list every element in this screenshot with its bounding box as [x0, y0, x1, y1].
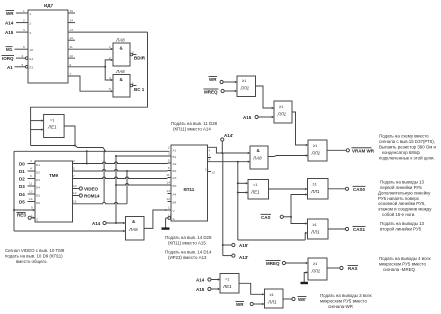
wire ground to ЛЛ1 RAS input2	[304, 273, 306, 283]
svg-text:9: 9	[70, 63, 72, 67]
ТМ9 input D0	[28, 163, 36, 165]
svg-text:подать на выв. 10 D9 (КП11): подать на выв. 10 D9 (КП11)	[5, 254, 63, 259]
wire ЛЛ1 RAS output to connector	[327, 267, 340, 269]
svg-text:Подать на выводы 13: Подать на выводы 13	[380, 180, 425, 185]
svg-text:Подать на выв. 11 D28: Подать на выв. 11 D28	[171, 121, 218, 126]
rail A15new x=237.8 down to U loop	[238, 162, 307, 240]
svg-text:сигнала -MREQ: сигнала -MREQ	[383, 267, 416, 272]
svg-text:CAS1: CAS1	[353, 227, 366, 232]
ЛА8 BDIR output bubble and stub	[130, 53, 133, 56]
svg-text:A14': A14'	[224, 133, 233, 138]
wire ЛЕ1 output to ЛЛ1 WE input1	[239, 283, 263, 294]
svg-text:10: 10	[168, 214, 172, 218]
svg-text:ЛЛ1: ЛЛ1	[311, 269, 321, 274]
svg-text:Подать на выводы 3 всех: Подать на выводы 3 всех	[320, 293, 373, 298]
wire ЛЛ1 WE output to connector	[283, 298, 292, 300]
svg-text:A14: A14	[92, 221, 101, 226]
svg-text:BDIR: BDIR	[134, 56, 146, 61]
svg-text:C: C	[36, 217, 39, 221]
svg-text:D5: D5	[19, 200, 25, 205]
КП11 multiplexer D28	[171, 145, 208, 221]
svg-text:3: 3	[30, 159, 32, 163]
gate ЛА8 D37 zone	[250, 146, 268, 169]
svg-text:ЛЛ1: ЛЛ1	[311, 151, 321, 156]
wire V4 branch to ЛА8 A14-gate input 2	[14, 230, 124, 232]
svg-text:5: 5	[168, 159, 170, 163]
svg-text:14: 14	[205, 168, 209, 172]
ИД7 right output pin 13 wire to loop	[68, 31, 148, 33]
svg-text:BC 1: BC 1	[134, 87, 145, 92]
svg-text:&: &	[132, 219, 136, 224]
КП11 right pin stub 2	[208, 157, 212, 159]
svg-text:подключенные к этой цепи.: подключенные к этой цепи.	[379, 156, 435, 161]
svg-text:6: 6	[23, 45, 25, 49]
wire A14 vertical rail x=116 from КП11 pin2 down to ЛА8 A14 gate	[116, 155, 168, 157]
svg-text:Подать на выводы 13: Подать на выводы 13	[380, 221, 425, 226]
svg-text:11: 11	[70, 45, 73, 49]
svg-text:&: &	[120, 46, 124, 51]
svg-text:B1: B1	[173, 155, 177, 159]
svg-text:≥1: ≥1	[313, 261, 317, 266]
svg-text:(КП11) вместо A15: (КП11) вместо A15	[168, 241, 206, 246]
svg-text:VRAM WR: VRAM WR	[352, 148, 375, 153]
svg-text:ТМ9: ТМ9	[49, 173, 58, 178]
svg-text:4: 4	[22, 54, 24, 58]
КП11 right pin wire to ЛА8 D37 input1	[208, 147, 249, 153]
wire ЛЛ1 WR/MREQ output to ЛЛ1 A15 gate	[256, 86, 273, 108]
wire КП11 pin6 branch from rail	[116, 184, 168, 186]
svg-text:5: 5	[73, 167, 75, 171]
svg-text:≥1: ≥1	[313, 222, 317, 227]
svg-text:D4: D4	[36, 186, 40, 190]
ЛА8 BC1 output bubble and stub	[130, 84, 133, 87]
svg-text:2: 2	[23, 19, 25, 23]
svg-text:≥1: ≥1	[279, 104, 283, 109]
svg-text:Подать на выводы 4 всех: Подать на выводы 4 всех	[379, 256, 432, 261]
svg-text:≥1: ≥1	[313, 143, 317, 148]
svg-text:2: 2	[168, 146, 170, 150]
connector CAS1 output	[345, 227, 348, 230]
svg-text:сигнала с выв.15 D37(РТ5),: сигнала с выв.15 D37(РТ5),	[379, 139, 435, 144]
connector WE output	[292, 297, 295, 300]
wire ЛЛ1 A15 output to ЛЛ1 VRAM gate	[292, 112, 307, 145]
wire ЛЕ1 inverter output to ЛЛ1 CAS0 input1	[269, 188, 307, 190]
svg-text:11: 11	[29, 182, 32, 186]
svg-text:12: 12	[212, 171, 216, 175]
svg-text:B2: B2	[173, 169, 177, 173]
svg-text:IORQ: IORQ	[2, 56, 14, 61]
svg-text:1: 1	[31, 214, 33, 218]
svg-text:A15': A15'	[239, 243, 248, 248]
gate ЛЛ1 CAS1	[308, 219, 329, 239]
svg-text:RAS: RAS	[348, 266, 358, 271]
svg-text:13: 13	[29, 190, 33, 194]
svg-text:ЛЛ1: ЛЛ1	[277, 112, 287, 117]
gate ЛЛ1 CAS0	[308, 179, 329, 200]
svg-text:ЛЕ1: ЛЕ1	[47, 125, 57, 130]
svg-text:1: 1	[109, 45, 111, 49]
svg-text:14: 14	[29, 197, 33, 201]
ИД7 left pin WR input	[16, 12, 28, 14]
ТМ9 input D1	[28, 170, 36, 172]
wire ЛА8 D37 output to ЛЛ1 VRAM input2	[268, 156, 307, 157]
ТМ9 input D5	[28, 201, 36, 203]
wire latch rail x=104 down	[103, 151, 105, 202]
svg-text:D5: D5	[36, 194, 40, 198]
svg-text:&: &	[257, 148, 261, 153]
svg-text:=1: =1	[253, 182, 257, 187]
svg-text:ROM14: ROM14	[84, 194, 100, 199]
svg-text:D3: D3	[36, 178, 40, 182]
svg-text:&: &	[120, 77, 124, 82]
svg-text:ЛА8: ЛА8	[115, 38, 125, 43]
svg-text:WR: WR	[6, 11, 14, 16]
ИД7 right output pin 9 wire split to both ЛА8 gates	[68, 60, 112, 80]
svg-text:VIDEO: VIDEO	[84, 187, 99, 192]
svg-text:7: 7	[70, 72, 72, 76]
svg-text:РУ5 напаять поверх: РУ5 напаять поверх	[378, 196, 420, 201]
gate ЛЛ1 RAS	[308, 258, 327, 280]
connector A15' bottom	[223, 244, 232, 246]
svg-text:A1: A1	[7, 65, 13, 70]
svg-text:Подать на схему вместо: Подать на схему вместо	[379, 134, 429, 139]
ТМ9 latch D9	[35, 161, 73, 222]
ground at RAS gate	[301, 282, 309, 284]
svg-text:12: 12	[73, 191, 77, 195]
wire ЛЛ1 CAS1 output to connector	[328, 228, 345, 230]
svg-text:Подать на выв. 14 D14: Подать на выв. 14 D14	[165, 250, 212, 255]
ТМ9 input D2	[28, 178, 36, 180]
connector A14 input WE zone	[208, 278, 211, 281]
wire rail to ЛЕ1 inverter input1	[238, 182, 247, 184]
wire CAS rail split to both CAS gates	[291, 195, 306, 224]
svg-text:ЛЛ1: ЛЛ1	[267, 300, 277, 305]
svg-text:ЛЕ1: ЛЕ1	[250, 190, 260, 195]
ИД7 right output pin 7 wire to ЛА8 BC1 input 2	[68, 76, 112, 91]
ТМ9 input D3	[28, 185, 36, 187]
connector WR input WE zone	[250, 302, 253, 305]
svg-text:A15: A15	[196, 287, 205, 292]
gate ЛА8 BDIR	[113, 43, 130, 66]
svg-text:(ИР23) вместо A13: (ИР23) вместо A13	[168, 255, 207, 260]
svg-text:этажом и соединив между: этажом и соединив между	[378, 207, 432, 212]
svg-text:второй линейки РУ5: второй линейки РУ5	[380, 227, 422, 232]
gate ЛЛ1 A15	[274, 101, 292, 123]
svg-text:Выпаять резистор 390 Ом и: Выпаять резистор 390 Ом и	[379, 145, 437, 150]
svg-text:3: 3	[30, 31, 32, 35]
svg-text:Сигнал VIDEO с выв. 10 ТМ9: Сигнал VIDEO с выв. 10 ТМ9	[5, 248, 65, 253]
gate ЛА8 A14 zone	[126, 217, 145, 241]
wire big loop: pin13 right edge down and back left	[31, 32, 148, 145]
wire ТМ9 out3 to КП11 pin5 with hops	[77, 177, 168, 179]
svg-text:10: 10	[73, 184, 77, 188]
svg-text:основной линейки РУ5,: основной линейки РУ5,	[378, 201, 426, 206]
svg-text:11: 11	[167, 173, 170, 177]
wire ЛЕ1 latch input 2	[31, 129, 43, 131]
svg-text:MREQ: MREQ	[204, 90, 218, 95]
svg-text:RES: RES	[17, 213, 26, 218]
connector A15 input WE zone	[208, 287, 211, 290]
svg-text:собой 15-е ноги.: собой 15-е ноги.	[382, 212, 415, 217]
svg-text:B4: B4	[173, 201, 177, 205]
svg-text:1: 1	[168, 206, 170, 210]
svg-text:B3: B3	[173, 184, 177, 188]
svg-text:2: 2	[30, 22, 32, 26]
svg-text:A15: A15	[5, 30, 14, 35]
connector A13' bottom	[223, 255, 232, 257]
svg-text:3: 3	[23, 28, 25, 32]
connector WR input	[220, 80, 223, 83]
wire ЛА8 A14-gate output to КП11 pin	[144, 210, 168, 228]
svg-text:7: 7	[73, 174, 75, 178]
svg-text:1: 1	[23, 9, 25, 13]
svg-text:13: 13	[167, 189, 171, 193]
svg-text:=1: =1	[50, 118, 54, 123]
svg-text:ИД7: ИД7	[44, 3, 53, 8]
ИД7 right output stub pin 12	[68, 39, 75, 41]
svg-text:4: 4	[30, 167, 32, 171]
svg-text:CAS0: CAS0	[353, 187, 366, 192]
ИД7 left pin IORQ input with bubble	[16, 57, 25, 59]
svg-text:14: 14	[167, 181, 171, 185]
svg-text:=1: =1	[225, 277, 229, 282]
svg-text:V: V	[173, 209, 176, 213]
gate ЛЕ1 latch	[44, 115, 65, 138]
svg-text:микросхем РУ5 вместо: микросхем РУ5 вместо	[320, 299, 367, 304]
svg-text:6: 6	[30, 174, 32, 178]
svg-text:ЛЛ1: ЛЛ1	[310, 230, 320, 235]
connector A15 input	[255, 115, 258, 118]
connector CAS0 output	[345, 187, 348, 190]
svg-text:A2: A2	[173, 162, 177, 166]
connector ROM14	[77, 195, 80, 197]
ИД7 left pin A14 input	[16, 22, 28, 24]
svg-text:12: 12	[167, 197, 171, 201]
ИД7 right output stub pin 10	[68, 57, 75, 59]
wire latch node H to КП11	[14, 146, 170, 152]
wire ЛЕ1 latch output feedback loop	[64, 126, 75, 146]
wire rail to ЛЕ1 inverter input2	[238, 192, 247, 194]
svg-text:D3: D3	[19, 184, 25, 189]
svg-text:Подать на выв. 14 D28: Подать на выв. 14 D28	[165, 235, 212, 240]
svg-text:S: S	[173, 217, 175, 221]
svg-text:ЛЛ1: ЛЛ1	[240, 86, 250, 91]
svg-text:2: 2	[73, 159, 75, 163]
КП11 right pin wire to ЛА8 D37 input2	[208, 161, 249, 163]
svg-text:10: 10	[30, 48, 34, 52]
ИД7 left pin M1 input	[15, 48, 29, 50]
svg-text:13: 13	[70, 28, 74, 32]
КП11 right short stub pin14	[208, 171, 212, 173]
svg-text:WE': WE'	[298, 297, 306, 302]
ТМ9 right output stubs	[73, 164, 77, 204]
svg-text:первой линейки РУ5: первой линейки РУ5	[380, 185, 422, 190]
svg-text:WR: WR	[236, 302, 244, 307]
svg-text:9: 9	[209, 158, 211, 162]
wire ЛЛ1 CAS0 output to connector	[328, 188, 345, 190]
svg-text:Ε1: Ε1	[30, 57, 34, 61]
svg-text:4: 4	[109, 76, 111, 80]
svg-text:A13': A13'	[239, 255, 248, 260]
svg-text:10: 10	[70, 54, 74, 58]
connector VRAM WR output	[346, 149, 349, 152]
svg-text:КП11: КП11	[184, 187, 195, 192]
gate ЛЛ1 VRAM WR	[308, 140, 327, 161]
ИД7 right output pin 11 wire to ЛА8 BDIR input 1	[68, 48, 112, 50]
svg-text:6: 6	[168, 166, 170, 170]
svg-text:Дополнительную линейку: Дополнительную линейку	[378, 190, 431, 195]
connector CAS input	[280, 215, 283, 218]
gate ЛЛ1 WE	[265, 289, 284, 308]
КП11 bottom-left pin with bubble to ground	[166, 217, 168, 219]
ТМ9 connector RES with bubble pin	[28, 216, 31, 219]
svg-text:Ε2: Ε2	[30, 66, 34, 70]
svg-text:D1: D1	[19, 169, 25, 174]
svg-text:3: 3	[168, 152, 170, 156]
svg-text:D0: D0	[19, 162, 25, 167]
svg-text:ЛА8: ЛА8	[128, 227, 138, 232]
connector VIDEO	[77, 188, 80, 190]
svg-text:5: 5	[109, 87, 111, 91]
connector RAS output	[340, 266, 343, 269]
svg-text:4: 4	[209, 149, 211, 153]
svg-text:6: 6	[132, 82, 134, 86]
ground at КП11	[165, 218, 167, 228]
svg-text:≥1: ≥1	[313, 182, 317, 187]
svg-text:≥1: ≥1	[242, 78, 246, 83]
ИД7 right output stub pin 14	[68, 22, 75, 24]
svg-text:CAS: CAS	[261, 215, 271, 220]
svg-text:A1: A1	[173, 149, 177, 153]
svg-text:конденсатор 68пф: конденсатор 68пф	[382, 150, 420, 155]
wire ЛЛ1 VRAM output to connector	[327, 149, 346, 151]
connector A14' above КП11	[221, 138, 224, 141]
input arrowheads	[33, 48, 308, 305]
svg-text:3: 3	[132, 51, 134, 55]
svg-text:микросхем РУ5 вместо: микросхем РУ5 вместо	[379, 262, 426, 267]
svg-text:9: 9	[31, 206, 33, 210]
svg-text:вместо общего.: вместо общего.	[16, 259, 48, 264]
gate ЛЛ1 WR/MREQ	[237, 76, 256, 97]
ТМ9 input D4	[28, 193, 36, 195]
svg-text:ЛЛ1: ЛЛ1	[310, 189, 320, 194]
gate ЛЕ1 inverter CAS zone	[248, 180, 269, 200]
svg-text:14: 14	[70, 19, 74, 23]
svg-text:A4: A4	[173, 193, 177, 197]
wire ТМ9 out6 up to КП11 pin4 rail x=127	[77, 171, 128, 204]
wire ЛЕ1 latch input 1	[31, 120, 43, 122]
svg-text:D6: D6	[36, 201, 40, 205]
svg-text:ЛА8: ЛА8	[115, 69, 125, 74]
svg-text:WR: WR	[209, 77, 217, 82]
ИД7 left pin A1 input with bubble	[15, 66, 26, 68]
svg-text:D2: D2	[19, 177, 25, 182]
svg-text:ЛЕ1: ЛЕ1	[222, 284, 232, 289]
svg-text:D1: D1	[36, 163, 40, 167]
ИД7 right output stub pin 15	[68, 12, 75, 14]
gate ЛЕ1 A14/A15	[220, 274, 239, 294]
svg-text:A14: A14	[5, 21, 14, 26]
svg-text:A14: A14	[196, 278, 205, 283]
ИД7 left pin A15 input	[16, 31, 28, 33]
wire latch vertical V4 down left side	[13, 151, 15, 231]
svg-text:сигнала-WR: сигнала-WR	[328, 304, 353, 309]
svg-text:A3: A3	[173, 176, 177, 180]
svg-text:D4: D4	[19, 192, 25, 197]
wire V4 branch to ТМ9 pin	[14, 209, 34, 211]
svg-text:ЛА8: ЛА8	[252, 156, 262, 161]
svg-text:1: 1	[30, 12, 32, 16]
svg-text:A15: A15	[243, 115, 252, 120]
svg-text:12: 12	[70, 36, 74, 40]
connector MREQ input	[221, 89, 224, 92]
svg-text:M1: M1	[6, 47, 13, 52]
svg-text:15: 15	[73, 200, 77, 204]
decoder IC D? ИД7	[28, 10, 68, 83]
wire ТМ9 out1 up to latch net	[77, 151, 87, 163]
connector A14 input to ЛА8	[103, 221, 106, 224]
svg-text:(КП11) вместо A14: (КП11) вместо A14	[173, 127, 211, 132]
connector MREQ input RAS zone	[282, 261, 285, 264]
svg-text:D2: D2	[36, 171, 40, 175]
rail x=222.8 down to bottom connectors	[222, 153, 224, 256]
svg-text:2: 2	[109, 56, 111, 60]
wire ТМ9 out1 to КП11 pin3 with hops	[87, 162, 168, 164]
svg-text:MREQ: MREQ	[266, 261, 280, 266]
svg-text:15: 15	[70, 9, 74, 13]
wire ТМ9 out2 to КП11 pin4 with hops	[77, 170, 168, 172]
svg-text:5: 5	[22, 63, 24, 67]
КП11 left pin stubs	[168, 156, 172, 210]
gate ЛА8 BC1	[113, 75, 130, 98]
svg-text:≥1: ≥1	[270, 292, 274, 297]
